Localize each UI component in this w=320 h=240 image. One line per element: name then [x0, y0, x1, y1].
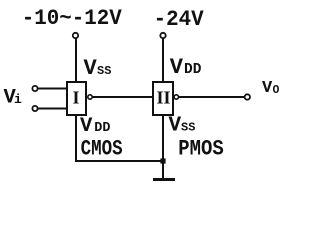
wire T1 to box I top pin VSS [75, 39, 77, 83]
wire box I output to box II input [92, 96, 152, 98]
svg-text:SS: SS [97, 64, 111, 78]
svg-text:SS: SS [181, 120, 195, 134]
svg-text:-10~-12V: -10~-12V [22, 5, 122, 31]
svg-text:i: i [14, 92, 22, 107]
svg-text:II: II [157, 87, 171, 107]
svg-text:V: V [170, 55, 184, 80]
wire bottom rail [75, 160, 163, 162]
bubble on box I output [88, 95, 92, 99]
svg-text:V: V [84, 56, 98, 81]
wire box II output to terminal Vo [179, 96, 245, 98]
svg-text:CMOS: CMOS [81, 137, 123, 162]
svg-text:DD: DD [94, 121, 110, 136]
input terminal Vi upper [32, 86, 37, 91]
svg-text:V: V [169, 114, 182, 137]
svg-text:I: I [73, 87, 80, 107]
wire Vi lower to box I [38, 108, 66, 110]
svg-text:PMOS: PMOS [178, 137, 224, 162]
inverter U2 box II (PMOS) [153, 82, 173, 115]
wire Vi upper to box I [38, 88, 66, 90]
bubble on box II output [174, 95, 178, 99]
wire T2 to box II top pin VDD [162, 39, 164, 82]
svg-text:V: V [80, 115, 93, 138]
inverter U1 box I (CMOS) [67, 82, 86, 115]
ground [153, 178, 175, 181]
terminal T2 (-24V) [160, 33, 165, 38]
svg-text:DD: DD [184, 62, 202, 78]
wire box I bottom pin to rail [75, 116, 77, 161]
svg-text:-24V: -24V [154, 6, 204, 32]
terminal T1 (-10~-12V) [73, 33, 78, 38]
svg-text:O: O [273, 84, 280, 97]
output terminal T3 [245, 94, 250, 99]
wire box II bottom pin to junction [162, 116, 164, 161]
svg-text:V: V [262, 79, 273, 98]
junction node [160, 158, 165, 163]
input terminal Vi lower [32, 106, 37, 111]
wire junction to ground [162, 161, 164, 178]
